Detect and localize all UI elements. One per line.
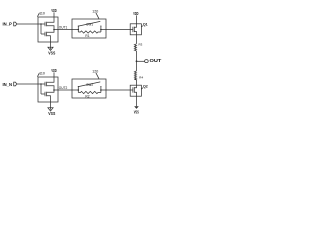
svg-text:Q2: Q2 [143, 84, 148, 88]
output transistor Q1 box [130, 24, 141, 35]
wire [58, 89, 72, 91]
output transistor Q2 box [130, 85, 141, 96]
port IN_P [14, 22, 38, 26]
node B [53, 89, 58, 91]
svg-text:VSS: VSS [48, 51, 55, 56]
transistor M4 [45, 90, 54, 102]
resistor R2 [78, 90, 101, 99]
attenuator box 120 (top) [72, 19, 106, 38]
svg-text:110: 110 [39, 12, 45, 16]
node OUT [136, 60, 149, 63]
label 120 [92, 9, 99, 18]
svg-text:R2: R2 [85, 95, 89, 99]
wire [136, 61, 138, 71]
label 110 [37, 12, 45, 17]
wire to output transistor [106, 89, 130, 91]
transistor Q1 [130, 24, 136, 35]
svg-text:R3: R3 [139, 43, 143, 47]
power VDD right [133, 11, 139, 24]
label Q1 [142, 22, 148, 27]
wire [72, 89, 106, 91]
ground VSS under U2 [48, 102, 55, 116]
svg-text:OUT: OUT [150, 58, 162, 63]
wire [72, 29, 106, 31]
transistor M1 [45, 17, 54, 30]
svg-text:IN_N: IN_N [3, 82, 13, 87]
input stage U1 box [38, 17, 58, 42]
attenuator box 120 (bottom) [72, 79, 106, 98]
wire [136, 80, 138, 85]
switch SW2 [78, 82, 102, 90]
wire gate bus [38, 83, 45, 94]
wire [136, 35, 138, 44]
transistor M2 [45, 30, 54, 43]
svg-text:VSS: VSS [48, 111, 55, 116]
transistor Q2 [130, 85, 136, 96]
resistor R1 [78, 30, 101, 39]
power VDD bottom-left [51, 68, 57, 77]
wire to OUT node [136, 51, 138, 61]
svg-text:OUT1: OUT1 [59, 26, 68, 30]
svg-text:SW2: SW2 [86, 83, 93, 87]
label Q2 [141, 84, 147, 89]
svg-text:Q1: Q1 [143, 22, 148, 26]
svg-text:OUT2: OUT2 [59, 86, 68, 90]
svg-text:IN_P: IN_P [3, 21, 13, 26]
node A [53, 29, 58, 31]
port IN_N [14, 82, 38, 86]
input stage U2 box [38, 77, 58, 102]
wire [136, 96, 138, 106]
ground VSS right [134, 106, 139, 114]
wire [58, 29, 72, 31]
wire to output transistor [106, 29, 130, 31]
resistor R3 [134, 43, 142, 52]
power VDD top-left [51, 8, 57, 17]
wire gate bus [38, 23, 45, 34]
ground VSS under U1 [48, 42, 55, 56]
svg-text:110: 110 [39, 72, 45, 76]
switch SW1 [78, 21, 102, 29]
resistor R4 [134, 71, 143, 80]
svg-text:VDD: VDD [133, 11, 139, 17]
svg-text:120: 120 [92, 9, 98, 13]
transistor M3 [45, 77, 54, 90]
svg-text:120: 120 [92, 69, 98, 73]
svg-text:R4: R4 [139, 75, 143, 79]
svg-text:VSS: VSS [134, 109, 139, 114]
svg-text:R1: R1 [85, 34, 89, 38]
svg-text:SW1: SW1 [86, 22, 93, 26]
label 110 [37, 72, 45, 77]
label 120 [92, 69, 99, 79]
